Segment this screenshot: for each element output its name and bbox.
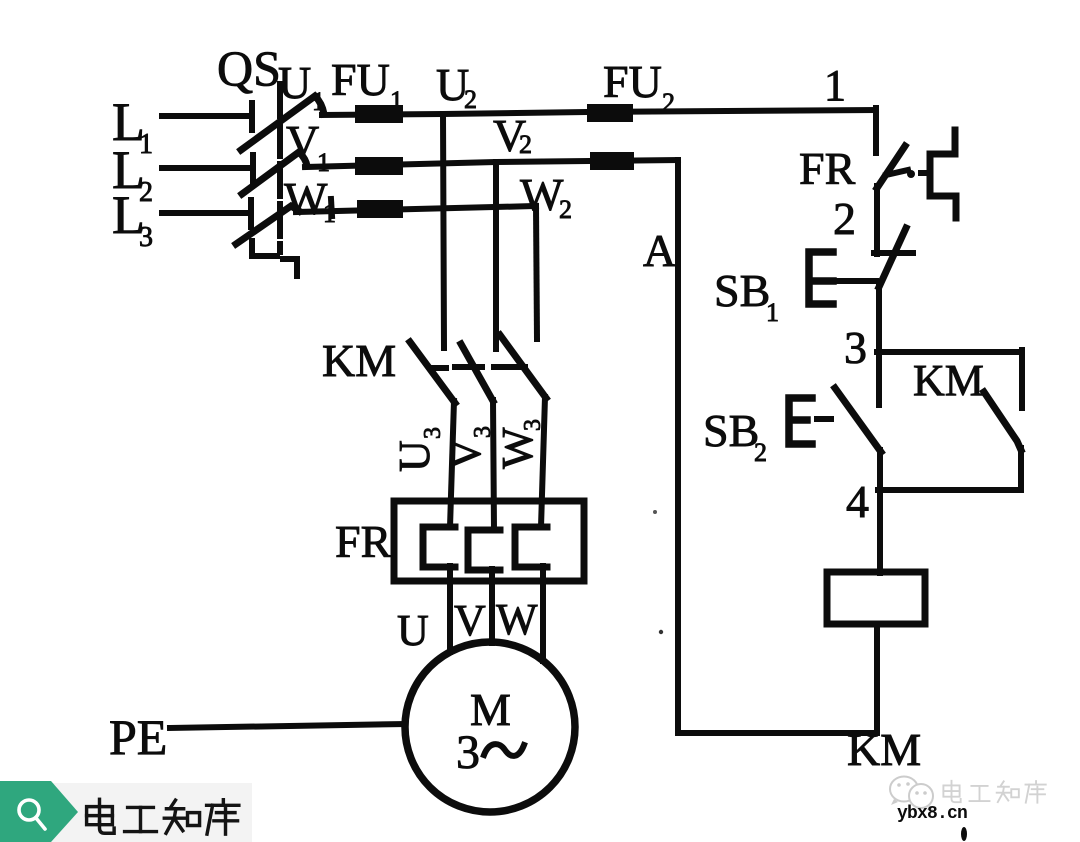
svg-text:W: W (496, 595, 538, 644)
thermal relay FR contact tick (886, 170, 908, 175)
wire node 2 segment (874, 186, 880, 254)
pushbutton SB1 blade (879, 228, 906, 287)
svg-text:3: 3 (844, 322, 867, 373)
switch QS blade pole 3 (236, 206, 299, 244)
wire SB2 to node 4 (877, 450, 883, 573)
watermark right text gong (970, 786, 990, 801)
wire L3 incoming (162, 210, 249, 216)
thermal relay FR heater box (394, 501, 584, 581)
svg-text:W: W (520, 169, 564, 220)
svg-text:V: V (286, 116, 319, 167)
svg-text:ybx8.cn: ybx8.cn (897, 804, 967, 824)
thermal relay FR heater element 3 (515, 527, 547, 567)
svg-text:1: 1 (824, 61, 846, 110)
pushbutton SB1 actuator dashes (838, 278, 876, 284)
wire L3 to FU1 (296, 206, 536, 212)
POWER-CIRCUIT (162, 84, 876, 812)
watermark left text ku (207, 800, 239, 834)
watermark logo bubbles (890, 777, 934, 812)
wire L2 to FU1 (305, 160, 678, 167)
svg-text:FR: FR (335, 516, 392, 567)
node L2 terminal cap (250, 155, 256, 182)
label U3 subscript (420, 427, 446, 439)
wire U2 drop (443, 114, 444, 348)
svg-text:2: 2 (754, 438, 767, 467)
watermark magnifier icon (19, 800, 39, 820)
pushbutton SB1 actuator E (809, 252, 833, 304)
thermal relay FR heater element 2 (468, 530, 500, 570)
watermark left green tag (0, 781, 78, 842)
svg-text:FU: FU (603, 56, 662, 107)
svg-text:2: 2 (519, 130, 532, 159)
wire node 4 branch (878, 487, 1021, 493)
svg-text:W: W (493, 427, 542, 469)
thermal relay FR heater element 1 (423, 527, 455, 567)
svg-text:SB: SB (703, 405, 759, 456)
svg-text:2: 2 (559, 195, 572, 224)
contactor KM main contact 2 blade (461, 344, 493, 401)
svg-text:U: U (397, 606, 429, 655)
contactor KM aux contact blade (984, 392, 1021, 450)
svg-text:1: 1 (312, 87, 325, 116)
node L3 terminal cap (248, 200, 254, 227)
svg-text:2: 2 (464, 85, 477, 114)
pushbutton SB1 top terminal tick (874, 250, 913, 256)
ink speck 1 (653, 510, 657, 514)
wire L2 incoming (162, 165, 252, 171)
node L1 terminal cap (249, 103, 255, 130)
wire heater 2 to motor V (489, 569, 495, 643)
svg-text:3: 3 (420, 427, 446, 439)
svg-text:PE: PE (109, 709, 167, 765)
wire SB1 to node 3 (876, 285, 882, 353)
svg-text:U: U (278, 57, 311, 108)
wire heater 1 to motor U (447, 566, 453, 652)
thermal relay FR contact dash (921, 170, 927, 176)
fuse FU2 pole 2 (590, 152, 634, 170)
watermark right text zhi (997, 781, 1019, 802)
switch QS linkage handle bracket 2 (283, 259, 297, 276)
svg-text:QS: QS (217, 40, 281, 96)
wire below KM contact 3 (541, 397, 545, 527)
wire node 1 drop (873, 108, 879, 153)
watermark left text dian (87, 799, 115, 833)
svg-text:FU: FU (331, 54, 390, 105)
label V3 rotated (441, 438, 490, 470)
fuse FU1 pole 1 (355, 105, 403, 123)
watermark left text gong (125, 807, 157, 831)
wire coil to bottom (874, 624, 880, 733)
pushbutton SB2 blade (835, 388, 881, 452)
wire PE to motor frame (170, 724, 404, 728)
wire A drop (675, 160, 681, 733)
contactor KM main contact 1 tick (431, 365, 446, 371)
pushbutton SB2 actuator E (789, 398, 812, 444)
ink speck 2 (659, 630, 663, 634)
wire V2 drop (493, 162, 499, 349)
svg-text:W: W (284, 173, 328, 224)
wire bottom return (678, 730, 877, 736)
switch QS linkage handle bracket (252, 241, 277, 256)
node tick on L3 (331, 199, 332, 216)
contactor KM main contact 1 blade (410, 342, 455, 403)
label W3 subscript (520, 419, 546, 431)
svg-text:1: 1 (323, 199, 336, 228)
svg-text:2: 2 (833, 193, 856, 244)
switch QS linkage dashed bar (277, 84, 283, 252)
contactor KM main contact 3 blade (500, 335, 546, 398)
wire below KM contact 1 (450, 401, 454, 527)
contactor KM main contact 3 tick (494, 364, 525, 370)
wire L1 to FU1 (322, 110, 876, 115)
thermal relay FR heater hook symbol (930, 130, 956, 218)
fuse FU1 pole 2 (355, 157, 403, 175)
label V3 subscript (470, 426, 496, 438)
contactor KM aux contact top wire (1019, 350, 1025, 408)
watermark left text zhi (164, 800, 199, 833)
contactor KM main contact 2 tick (455, 364, 482, 370)
svg-text:1: 1 (766, 298, 779, 327)
fuse FU1 pole 3 (357, 200, 403, 218)
wire heater 3 to motor W (540, 566, 546, 661)
thermal relay FR contact dot (907, 170, 915, 178)
node 3 branch wire (877, 349, 1022, 355)
wire L1 incoming (162, 113, 251, 119)
svg-text:4: 4 (846, 476, 869, 527)
svg-text:U: U (390, 440, 439, 472)
svg-text:KM: KM (847, 724, 921, 775)
svg-text:3: 3 (139, 222, 153, 253)
svg-text:3: 3 (520, 419, 546, 431)
svg-text:V: V (454, 596, 486, 645)
switch QS blade pole 2 (242, 152, 307, 194)
svg-text:KM: KM (322, 335, 396, 386)
motor M circle (405, 642, 575, 812)
svg-text:1: 1 (390, 86, 403, 115)
label U3 rotated (390, 440, 439, 472)
pushbutton SB2 actuator dash (817, 416, 831, 422)
watermark logo eyes (897, 782, 927, 795)
svg-text:V: V (441, 438, 490, 470)
CONTROL-CIRCUIT (678, 108, 1022, 733)
wire node 3 to SB2 (876, 352, 882, 405)
wire W2 drop (536, 206, 537, 339)
watermark right text ku (1026, 781, 1046, 803)
ink blot (961, 827, 967, 841)
svg-text:A: A (643, 225, 676, 276)
thermal relay FR contact blade (877, 146, 905, 188)
svg-text:2: 2 (662, 88, 675, 117)
contactor KM coil (827, 572, 925, 624)
fuse FU2 pole 1 (587, 104, 633, 122)
watermark right text dian (943, 781, 960, 802)
svg-text:3: 3 (456, 726, 480, 779)
svg-text:FR: FR (799, 143, 856, 194)
svg-text:SB: SB (714, 265, 770, 316)
wire below KM contact 2 (493, 400, 494, 530)
label W3 rotated (493, 427, 542, 469)
watermark left grey strip (0, 783, 252, 842)
contactor KM aux contact bottom wire (1018, 448, 1024, 489)
svg-text:KM: KM (913, 356, 984, 405)
switch QS blade pole 1 (241, 96, 324, 150)
